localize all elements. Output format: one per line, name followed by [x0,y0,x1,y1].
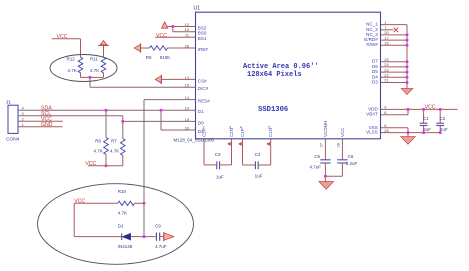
svg-text:C2P: C2P [201,128,206,137]
svg-text:1: 1 [22,122,24,127]
svg-text:BS1: BS1 [198,36,207,41]
svg-text:C5: C5 [314,154,320,159]
svg-text:4.7K: 4.7K [90,68,99,73]
svg-text:8: 8 [384,110,386,115]
svg-text:4.7K: 4.7K [68,68,77,73]
svg-text:27: 27 [319,142,324,147]
svg-text:U1: U1 [194,6,201,12]
svg-text:C9: C9 [155,224,161,229]
svg-text:C1: C1 [423,116,429,121]
svg-text:SSD1306: SSD1306 [258,106,288,114]
svg-text:C1N: C1N [268,128,273,137]
svg-text:2: 2 [22,116,24,121]
svg-text:4: 4 [22,105,25,110]
svg-text:D1: D1 [198,109,204,114]
svg-text:VDD: VDD [368,106,378,111]
svg-text:4.7uF: 4.7uF [155,244,167,249]
svg-text:21: 21 [384,78,388,83]
svg-text:1uF: 1uF [255,174,263,179]
svg-text:16: 16 [384,40,388,45]
svg-text:M128_64_SSD1306: M128_64_SSD1306 [174,137,215,142]
svg-text:R7: R7 [111,139,117,144]
svg-text:4.7K: 4.7K [118,211,127,216]
svg-text:CS#: CS# [198,78,207,83]
svg-text:26: 26 [185,43,189,48]
svg-text:VCC: VCC [425,105,436,111]
svg-text:4.7uF: 4.7uF [310,165,322,170]
svg-text:R12: R12 [67,57,76,62]
svg-text:2.2uF: 2.2uF [346,161,358,166]
svg-text:VCC: VCC [74,199,85,205]
svg-text:2uF: 2uF [440,127,448,132]
svg-text:9: 9 [384,105,386,110]
svg-text:2uF: 2uF [423,127,431,132]
svg-text:28: 28 [384,128,388,133]
svg-text:VBAT: VBAT [366,112,378,117]
svg-text:BS0: BS0 [198,31,207,36]
svg-text:C3: C3 [215,152,221,157]
svg-text:VCC: VCC [340,128,345,137]
svg-text:IREF: IREF [198,47,209,52]
svg-text:12: 12 [185,22,189,27]
svg-text:VCOMH: VCOMH [323,121,328,137]
svg-text:3: 3 [22,111,24,116]
svg-text:28: 28 [336,142,341,147]
svg-text:4.7K: 4.7K [110,149,119,154]
svg-text:15: 15 [185,83,189,88]
svg-text:J1: J1 [6,100,11,106]
svg-text:R11: R11 [90,57,98,62]
svg-text:Active Area 0.96'': Active Area 0.96'' [243,63,319,71]
svg-text:D/C#: D/C# [198,86,209,91]
svg-text:13: 13 [185,75,189,80]
svg-text:R5: R5 [146,55,152,60]
svg-text:R10: R10 [118,189,127,194]
svg-text:C2: C2 [440,116,446,121]
svg-text:D1: D1 [118,224,124,229]
svg-text:128x64 Pixels: 128x64 Pixels [247,71,302,79]
svg-text:RES#: RES# [198,99,210,104]
svg-text:R6: R6 [95,139,101,144]
svg-text:VCC: VCC [85,161,96,167]
svg-text:CON4: CON4 [6,137,20,143]
svg-text:VCC: VCC [57,34,68,40]
svg-text:VLSS: VLSS [366,130,378,135]
svg-text:18: 18 [185,117,189,122]
svg-text:IN4148: IN4148 [118,244,133,249]
svg-text:4.7K: 4.7K [94,149,103,154]
svg-text:11: 11 [185,33,189,38]
svg-text:C4: C4 [255,152,261,157]
svg-text:VCC: VCC [156,33,167,39]
svg-text:R/W#: R/W# [366,42,378,47]
svg-text:BS2: BS2 [198,25,207,30]
svg-text:19: 19 [185,106,189,111]
svg-text:D3: D3 [372,80,378,85]
svg-text:C2N: C2N [229,128,234,137]
svg-text:910K: 910K [160,55,171,60]
svg-text:GND: GND [41,122,53,128]
svg-text:1uF: 1uF [216,175,224,180]
svg-text:C1P: C1P [240,128,245,137]
svg-text:C6: C6 [348,154,354,159]
